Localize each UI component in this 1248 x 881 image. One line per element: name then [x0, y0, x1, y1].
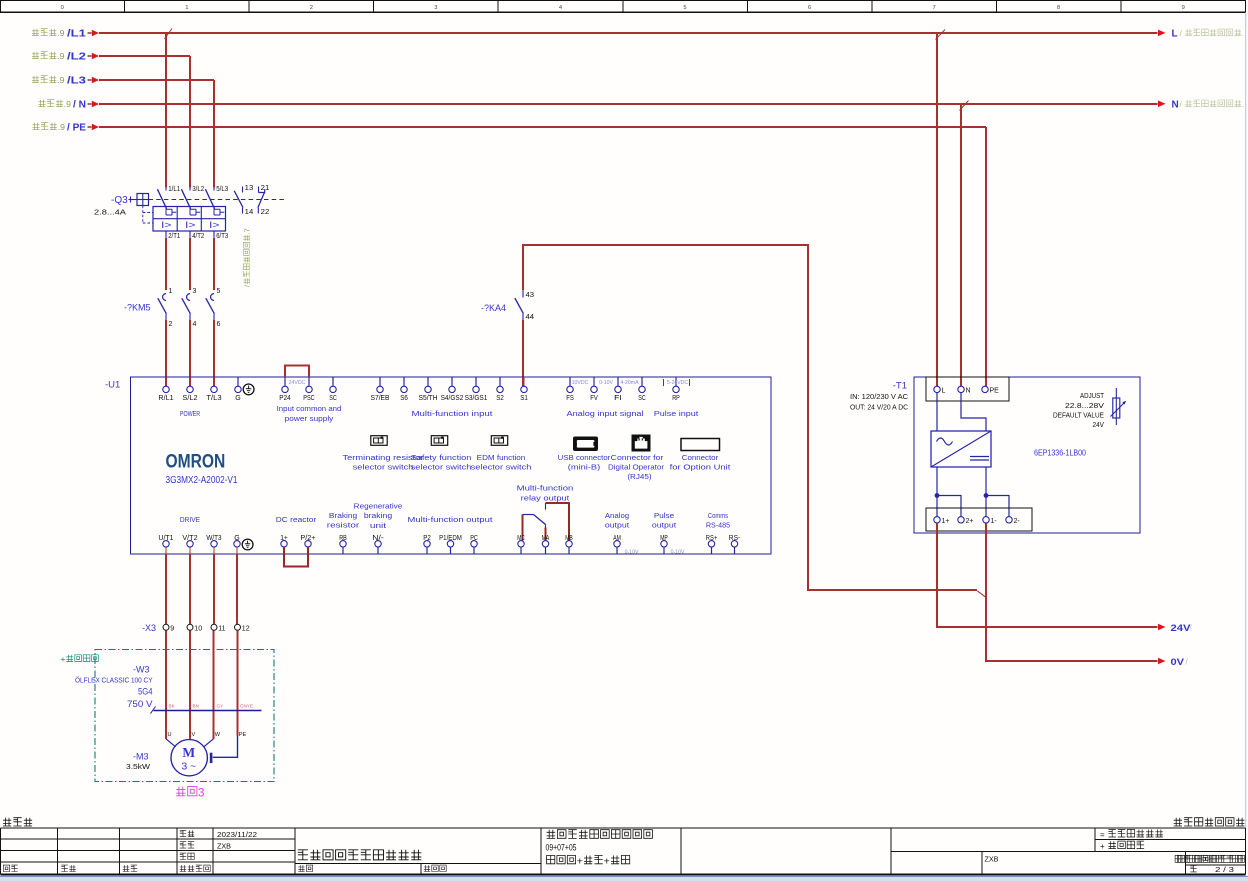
svg-text:R/L1: R/L1: [158, 395, 173, 402]
svg-text:G: G: [235, 395, 240, 402]
svg-text:6EP1336-1LB00: 6EP1336-1LB00: [1034, 447, 1086, 457]
svg-text:0V: 0V: [1171, 657, 1185, 668]
destination arrow 0V: [1158, 657, 1189, 668]
svg-text:power supply: power supply: [285, 416, 334, 423]
wire X3-9 to motor U: [165, 631, 167, 739]
U1 top terminal row: [158, 377, 680, 402]
svg-text:1-: 1-: [991, 518, 998, 525]
svg-text:2 / 3: 2 / 3: [1215, 865, 1234, 874]
title block table lines: [1, 828, 1246, 875]
svg-text:M: M: [182, 745, 195, 760]
wire U1 output to X3 at x=166: [165, 554, 167, 624]
wire X3-10 to motor V: [189, 631, 191, 739]
svg-text:5/L3: 5/L3: [216, 186, 228, 193]
svg-text:2/T1: 2/T1: [168, 233, 180, 240]
U1 terminal group labels bottom: [180, 503, 730, 555]
page footer cross-reference 主电路: [3, 818, 11, 826]
svg-text:ZXB: ZXB: [985, 854, 999, 863]
svg-text:selector switch: selector switch: [471, 465, 532, 472]
svg-text:OUT: 24 V/20 A DC: OUT: 24 V/20 A DC: [850, 405, 908, 412]
svg-text:RP: RP: [672, 395, 680, 402]
source arrow L3 from 主电路.9: [32, 75, 99, 86]
svg-text:24V: 24V: [1171, 623, 1192, 634]
option unit connector icon: [681, 439, 720, 451]
svg-text:RS-: RS-: [729, 535, 741, 542]
svg-text:Safety function: Safety function: [411, 455, 472, 462]
svg-text:PSC: PSC: [303, 395, 314, 402]
svg-text:-M3: -M3: [133, 751, 149, 761]
svg-text:ADJUST: ADJUST: [1080, 393, 1105, 400]
svg-text:Connector for: Connector for: [611, 453, 664, 462]
svg-text:2: 2: [310, 5, 313, 11]
svg-text:.9: .9: [57, 28, 64, 38]
svg-text:V: V: [192, 732, 196, 738]
svg-text:L: L: [1172, 29, 1178, 40]
drawing frame column ruler: [0, 1, 1246, 13]
source arrow N from 主电路.9: [39, 99, 100, 110]
T1 internal wiring output: [935, 467, 1009, 516]
svg-text:S6: S6: [400, 395, 408, 402]
svg-text:.9: .9: [57, 75, 64, 85]
DIP switch labels: [343, 455, 532, 472]
USB connector labels: [558, 453, 611, 472]
contactor KM5 main contacts: [124, 288, 221, 328]
wire U1 S1 up to KA4: [522, 320, 524, 386]
destination arrow 24V: [1158, 623, 1193, 634]
wire N drop to T1 terminal N: [960, 104, 962, 386]
wire X3-12 to motor PE: [237, 631, 239, 736]
svg-text:43: 43: [526, 292, 535, 299]
svg-text:1+: 1+: [942, 518, 950, 525]
svg-text:DRIVE: DRIVE: [180, 517, 200, 524]
svg-text:0: 0: [61, 5, 64, 11]
svg-text:0-10V: 0-10V: [599, 380, 613, 386]
svg-text:4-20mA: 4-20mA: [620, 380, 639, 386]
junction slash L1 to T1 branch: [936, 30, 946, 40]
svg-text:.9: .9: [58, 122, 65, 132]
svg-text:8: 8: [1057, 5, 1060, 11]
svg-text:10VDC: 10VDC: [572, 380, 589, 386]
svg-text:3.5kW: 3.5kW: [126, 764, 150, 771]
svg-text:13: 13: [245, 185, 254, 192]
motor M3 3-phase: [126, 732, 247, 776]
svg-text:Multi-function output: Multi-function output: [408, 517, 493, 524]
svg-text:S/L2: S/L2: [182, 395, 197, 402]
svg-text:3G3MX2-A2002-V1: 3G3MX2-A2002-V1: [166, 474, 238, 486]
svg-text:PE: PE: [239, 732, 247, 738]
U1 earth terminal symbol top: [243, 384, 254, 395]
svg-text:MC: MC: [517, 535, 525, 542]
window bottom scrollbar strip: [0, 875, 1248, 877]
svg-text:U: U: [168, 732, 172, 738]
svg-text:09+07+05: 09+07+05: [546, 843, 577, 853]
svg-text:for Option Unit: for Option Unit: [670, 463, 731, 472]
svg-text:.9: .9: [64, 99, 71, 109]
T1 output terminal strip 1+ 2+ 1- 2-: [926, 508, 1032, 531]
svg-text:Pulse: Pulse: [654, 513, 674, 520]
power supply unit T1 SITOP outline: [850, 377, 1140, 533]
svg-text:output: output: [605, 523, 629, 530]
svg-text:output: output: [652, 523, 676, 530]
svg-text:ÖLFLEX CLASSIC 100 CY: ÖLFLEX CLASSIC 100 CY: [75, 676, 153, 685]
svg-text:.9: .9: [57, 51, 64, 61]
svg-text:24V: 24V: [1093, 422, 1105, 429]
svg-text:N/-: N/-: [372, 535, 384, 542]
wire L1 drop to Q3 pole 1: [165, 33, 167, 187]
cable W3 OLFLEX definition line: [75, 664, 262, 713]
svg-text:.: .: [1242, 29, 1244, 38]
svg-text:9: 9: [170, 626, 174, 633]
svg-text:S2: S2: [496, 395, 504, 402]
destination arrow L to 继电器控制回路: [1158, 29, 1244, 40]
relay contact KA4 (43-44): [481, 290, 534, 321]
svg-text:S1: S1: [520, 395, 528, 402]
cross-reference 继电器控制回路.7 for Q3 aux contacts: [243, 228, 252, 287]
svg-text:-?KM5: -?KM5: [124, 303, 151, 313]
svg-text:Braking: Braking: [329, 513, 357, 520]
svg-text:selector switch: selector switch: [411, 465, 472, 472]
svg-text:.7: .7: [243, 228, 252, 234]
svg-text:USB connector: USB connector: [558, 453, 611, 462]
svg-text:Multi-function: Multi-function: [517, 486, 574, 493]
svg-text:Regenerative: Regenerative: [354, 503, 403, 510]
svg-text:S4/GS2: S4/GS2: [441, 395, 464, 402]
wire KM5 to U1 input at x=214: [213, 320, 215, 386]
svg-text:I>: I>: [185, 220, 196, 230]
svg-text:T/L3: T/L3: [206, 395, 221, 402]
svg-text:GNYE: GNYE: [240, 704, 253, 709]
svg-text:SC: SC: [329, 395, 337, 402]
svg-text:BN: BN: [193, 704, 199, 709]
machine label 镗床3: [176, 787, 185, 796]
svg-text:DEFAULT VALUE: DEFAULT VALUE: [1053, 412, 1104, 419]
multi-function relay output changeover contact: [517, 486, 574, 541]
wire Q3 to KM5 at x=166: [165, 238, 167, 290]
svg-text:P/2+: P/2+: [300, 535, 315, 542]
svg-text:1+: 1+: [280, 535, 288, 542]
svg-text:G: G: [234, 535, 239, 542]
RJ45 digital operator connector icon: [632, 435, 651, 452]
svg-text:DC reactor: DC reactor: [276, 517, 317, 524]
junction slash L1 to Q3 branch: [165, 29, 173, 39]
svg-text:RS-485: RS-485: [706, 523, 730, 530]
svg-text:3: 3: [434, 5, 437, 11]
svg-text:44: 44: [526, 314, 535, 321]
svg-text:/L3: /L3: [67, 76, 87, 87]
svg-text:+: +: [1100, 842, 1105, 851]
svg-text:W: W: [215, 732, 221, 738]
Q3 auxiliary contact 13-14: [234, 185, 253, 216]
svg-text:IN: 120/230 V AC: IN: 120/230 V AC: [850, 394, 908, 401]
svg-text:RS+: RS+: [706, 535, 717, 542]
svg-text:S7/EB: S7/EB: [371, 395, 390, 402]
svg-text:=: =: [1100, 831, 1105, 840]
svg-text:ZXB: ZXB: [217, 841, 231, 850]
svg-text:Pulse input: Pulse input: [654, 411, 699, 418]
svg-text:5G4: 5G4: [138, 686, 153, 696]
wire L1 drop to T1 terminal L: [936, 33, 938, 386]
RJ45 connector labels: [608, 453, 665, 481]
svg-text:1: 1: [169, 288, 173, 295]
svg-text:+: +: [604, 856, 610, 867]
svg-text:(mini-B): (mini-B): [568, 463, 600, 472]
svg-text:P24: P24: [279, 395, 290, 402]
svg-text:3/L2: 3/L2: [192, 186, 204, 193]
wire T1 1+ to 24V arrow: [937, 523, 1158, 627]
source arrow PE from 主电路.9: [33, 122, 100, 133]
Q3 thermal and magnetic trip unit box: [153, 207, 226, 238]
motor PE connection and terminal bar: [210, 735, 238, 763]
svg-text:6/T3: 6/T3: [216, 233, 228, 240]
T1 output adjust potentiometer: [1053, 388, 1126, 429]
T1 AC-DC converter block: [931, 431, 991, 467]
U1 analog input range mini labels: [289, 379, 690, 386]
svg-text:2023/11/22: 2023/11/22: [217, 830, 257, 839]
wire rail N: [99, 103, 1158, 105]
svg-text:AM: AM: [613, 535, 621, 542]
svg-text:relay output: relay output: [521, 495, 570, 502]
title block texts: [3, 830, 1244, 875]
svg-text:9: 9: [1182, 5, 1185, 11]
svg-text:2-: 2-: [1014, 518, 1021, 525]
DC reactor jumper wire 1+ to P/2+: [284, 547, 308, 566]
svg-text:6: 6: [808, 5, 811, 11]
svg-text:Digital Operator: Digital Operator: [608, 463, 665, 472]
svg-text:Input common and: Input common and: [277, 406, 342, 413]
svg-text:/ N: / N: [73, 100, 86, 111]
svg-text:12: 12: [242, 626, 250, 633]
svg-text:1: 1: [185, 5, 188, 11]
terminal strip X3: [142, 623, 250, 633]
wire PE drop to T1 terminal PE: [985, 127, 987, 386]
option connector labels: [670, 453, 731, 472]
svg-text:10: 10: [194, 626, 202, 633]
wire rail L2: [99, 55, 190, 57]
svg-text:22: 22: [261, 209, 270, 216]
wire rail L1: [99, 32, 1158, 34]
svg-text:L: L: [942, 387, 946, 394]
svg-text:2+: 2+: [966, 518, 974, 525]
USB mini-B connector icon: [573, 437, 598, 452]
svg-text:6: 6: [217, 321, 221, 328]
wire X3-11 to motor W: [213, 631, 215, 739]
Q3 pole contact 3/L2-4/T2: [181, 186, 204, 240]
svg-text:S3/GS1: S3/GS1: [465, 395, 488, 402]
svg-text:+: +: [577, 856, 583, 867]
svg-text:selector switch: selector switch: [353, 465, 414, 472]
wire Q3 to KM5 at x=190: [189, 238, 191, 290]
svg-text:FS: FS: [566, 395, 574, 402]
control cabinet boundary 控制柜外: [61, 650, 275, 782]
svg-text:/: /: [243, 285, 252, 287]
svg-text:3 ~: 3 ~: [181, 761, 196, 773]
svg-text:OMRON: OMRON: [166, 450, 226, 472]
svg-text:N: N: [966, 387, 971, 394]
svg-text:11: 11: [218, 626, 225, 633]
DIP selector switch icon 3: [491, 436, 507, 446]
svg-text:(RJ45): (RJ45): [627, 472, 651, 481]
DIP selector switch icon 2: [431, 436, 447, 446]
svg-text:0-10V: 0-10V: [671, 550, 685, 556]
svg-text:3: 3: [198, 788, 204, 800]
svg-text:+: +: [61, 654, 66, 664]
svg-text:1/L1: 1/L1: [168, 186, 180, 193]
svg-text:4: 4: [193, 321, 197, 328]
wire U1 output to X3 at x=237: [236, 554, 238, 624]
svg-text:SC: SC: [638, 395, 646, 402]
svg-text:-Q3: -Q3: [111, 195, 128, 206]
svg-text:BK: BK: [169, 704, 176, 709]
svg-text:-W3: -W3: [133, 664, 150, 674]
svg-text:PE: PE: [990, 387, 1000, 394]
T1 input terminal strip L N PE: [926, 377, 1009, 401]
junction slash S1 wire to 0V: [977, 591, 986, 598]
svg-text:/L1: /L1: [67, 29, 87, 40]
page right border: [1245, 12, 1247, 828]
svg-text:Analog: Analog: [605, 513, 629, 520]
svg-text:unit: unit: [370, 523, 386, 530]
svg-text:22.8...28V: 22.8...28V: [1065, 403, 1104, 410]
svg-text:P1/EDM: P1/EDM: [439, 535, 462, 542]
wire KM5 to U1 input at x=190: [189, 320, 191, 386]
svg-text:21: 21: [261, 185, 270, 192]
svg-text:V/T2: V/T2: [182, 535, 197, 542]
wire rail PE: [99, 126, 986, 128]
wire U1 output to X3 at x=214: [213, 554, 215, 624]
Q3 pole contact 1/L1-2/T1: [157, 186, 180, 240]
svg-text:14: 14: [245, 209, 254, 216]
svg-text:W/T3: W/T3: [206, 535, 221, 542]
svg-text:-T1: -T1: [893, 380, 907, 391]
wire rail L3: [99, 79, 214, 81]
svg-text:FV: FV: [590, 395, 598, 402]
svg-text:I>: I>: [209, 220, 220, 230]
source arrow L1 from 主电路.9: [32, 28, 99, 39]
svg-text:5-24VDC: 5-24VDC: [667, 380, 689, 386]
T1 internal wiring input: [937, 393, 986, 431]
svg-text:POWER: POWER: [180, 411, 200, 418]
U1 terminal group labels top: [180, 406, 698, 423]
svg-text:MB: MB: [565, 535, 573, 542]
svg-text:RB: RB: [339, 535, 347, 542]
svg-text:750 V: 750 V: [127, 699, 153, 709]
svg-text:5: 5: [217, 288, 221, 295]
wire Q3 to KM5 at x=214: [213, 238, 215, 290]
svg-text:FI: FI: [614, 395, 622, 402]
svg-text:5: 5: [683, 5, 686, 11]
page footer cross-reference 继电器控制回路: [1174, 818, 1182, 826]
svg-text:P2: P2: [423, 535, 431, 542]
DIP selector switch icon 1: [371, 436, 387, 446]
svg-text:MA: MA: [542, 535, 550, 542]
svg-text:GY: GY: [217, 704, 224, 709]
svg-text:/ PE: / PE: [67, 123, 86, 134]
wire KA4 to 0V rail: [523, 245, 977, 590]
svg-text:N: N: [1172, 99, 1179, 110]
U1 bottom terminal row: [158, 535, 740, 554]
inverter U1 OMRON 3G3MX2 outline: [105, 377, 771, 554]
svg-text:PC: PC: [470, 535, 478, 542]
svg-text:7: 7: [933, 5, 936, 11]
svg-text:/L2: /L2: [67, 52, 87, 63]
svg-text:-U1: -U1: [105, 380, 120, 391]
wire U1 output to X3 at x=190: [189, 554, 191, 624]
svg-text:resistor: resistor: [327, 523, 360, 530]
motor circuit breaker Q3: [94, 194, 285, 224]
svg-text:S5/TH: S5/TH: [419, 395, 438, 402]
junction slash N to T1 branch: [960, 101, 969, 111]
svg-text:.: .: [1242, 100, 1244, 109]
svg-text:0-10V: 0-10V: [625, 550, 639, 556]
svg-text:2.8...4A: 2.8...4A: [94, 208, 127, 217]
destination arrow N to 继电器控制回路: [1158, 99, 1244, 110]
Q3 auxiliary contact 21-22: [258, 185, 270, 216]
svg-text:Multi-function input: Multi-function input: [412, 411, 493, 418]
svg-text:2: 2: [169, 321, 173, 328]
source arrow L2 from 主电路.9: [32, 51, 99, 62]
svg-text:Comms: Comms: [708, 513, 729, 520]
svg-text:Analog input signal: Analog input signal: [567, 411, 645, 418]
wire KM5 to U1 input at x=166: [165, 320, 167, 386]
svg-text:-X3: -X3: [142, 623, 156, 633]
svg-text:Connector: Connector: [682, 453, 719, 462]
svg-text:U/T1: U/T1: [158, 535, 173, 542]
wire T1 1- to 0V arrow: [986, 523, 1158, 661]
svg-text:I>: I>: [161, 220, 172, 230]
svg-text:-?KA4: -?KA4: [481, 303, 506, 313]
wire L3 drop to Q3 pole 3: [213, 80, 215, 187]
U1 earth terminal symbol bottom: [242, 539, 253, 550]
svg-text:braking: braking: [364, 513, 392, 520]
svg-text:EDM function: EDM function: [477, 455, 526, 462]
Q3 pole contact 5/L3-6/T3: [205, 186, 228, 240]
svg-text:3: 3: [193, 288, 197, 295]
jumper wire P24 to PSC: [285, 365, 309, 377]
svg-text:24VDC: 24VDC: [289, 380, 306, 386]
wire L2 drop to Q3 pole 2: [189, 56, 191, 187]
svg-text:4/T2: 4/T2: [192, 233, 204, 240]
svg-text:MP: MP: [660, 535, 668, 542]
